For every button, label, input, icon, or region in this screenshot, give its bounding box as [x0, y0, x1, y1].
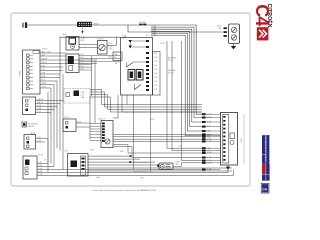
ignition switch CA00 [66, 37, 79, 51]
svg-text:BB10: BB10 [94, 24, 100, 26]
wire pin stub [206, 157, 221, 159]
wire main feed to node bundle [92, 25, 202, 114]
switch box CT01 [24, 133, 36, 149]
wire battery to connector [27, 24, 77, 26]
wire pin stub [206, 126, 221, 128]
label 1230VP97 [97, 39, 104, 41]
label 4VJ146 [146, 35, 150, 37]
wire U3 in 6 [90, 137, 101, 139]
wire U3 in 3 [90, 128, 101, 130]
wire bottom bus 3 [45, 170, 234, 176]
wire PSF1 pin 3 [40, 58, 97, 61]
wire module out 4 [90, 97, 202, 112]
wire riser 1 [50, 88, 52, 164]
wire bottom bus 2 [48, 165, 228, 173]
svg-text:1 NR: 1 NR [217, 28, 222, 30]
wire PSF1 pin 5 [40, 66, 63, 68]
pin BSI row 15 [202, 160, 212, 163]
wire riser x95b [94, 99, 96, 123]
wire PSF1 pin 8 [40, 75, 60, 78]
fuse F4 inline marks [139, 21, 146, 26]
wire U3 out 3 [113, 138, 202, 140]
control unit BV00 [68, 154, 89, 177]
wire riser x118 [113, 95, 118, 118]
wire bottom bus 1 [63, 169, 202, 171]
svg-text:DOCUMENTATION C4 04: DOCUMENTATION C4 04 [268, 136, 271, 164]
svg-text:10 MR: 10 MR [41, 83, 47, 85]
pin BSI row 5 [202, 130, 211, 133]
wire riser 5 [62, 74, 64, 170]
label PSF1 [20, 70, 22, 76]
wire riser 2 [53, 85, 55, 167]
svg-text:2 NR: 2 NR [108, 48, 113, 50]
svg-text:2 NR: 2 NR [175, 164, 180, 166]
svg-text:C001: C001 [41, 55, 45, 57]
wire pin stub [206, 121, 221, 123]
svg-text:C4: C4 [183, 110, 185, 112]
wire CT02 pin 2 [37, 165, 54, 167]
pin BSI row 10 [202, 141, 212, 144]
ground motor U2 [231, 44, 236, 50]
border frame [11, 13, 250, 186]
wire C10 pin 2 [36, 101, 61, 104]
wire PSF1 pin 2 [40, 55, 66, 57]
wire BV00 out 4 [88, 164, 159, 166]
wire riser x181 [182, 41, 203, 161]
label C001842 [42, 48, 48, 50]
wire ignition to motor M3 [79, 45, 98, 48]
svg-text:12A VE: 12A VE [37, 101, 44, 104]
pin BSI row 14 [202, 157, 212, 160]
svg-text:1 NR: 1 NR [80, 40, 85, 42]
svg-text:B8: B8 [115, 63, 117, 65]
wire pin stub [206, 150, 221, 152]
svg-text:C4 B8: C4 B8 [30, 133, 35, 135]
label group B BV [168, 69, 176, 75]
label group A BV [168, 57, 177, 63]
label 4BA96 [96, 176, 101, 179]
svg-text:C4: C4 [44, 160, 46, 162]
fuse box PSF1 [23, 50, 41, 94]
wire pin stub [206, 141, 221, 143]
wire CV00 bottom drop 2 [133, 95, 135, 170]
wire C10 pin 1 [36, 98, 64, 101]
label CV00 [122, 36, 127, 38]
pin BSI row 4 [202, 126, 211, 129]
pin BSI row 2 [202, 116, 212, 119]
wire C10 pin 5 [36, 111, 52, 113]
svg-text:PSF1: PSF1 [20, 70, 22, 76]
wire PSF1 pin 1 [40, 51, 66, 54]
pin BSI row 8 [202, 136, 211, 139]
connector box C10 [23, 97, 36, 115]
wire U3 in 4 [90, 131, 101, 133]
svg-text:5 GR: 5 GR [41, 73, 46, 75]
wire pin stub [206, 147, 221, 149]
svg-text:2 NR: 2 NR [41, 66, 46, 68]
wire module enclosure top [60, 36, 126, 77]
module V1300 [63, 117, 90, 131]
wire riser x167 [167, 41, 202, 148]
battery BB00 [23, 22, 26, 28]
wire pin stub [206, 152, 221, 154]
wire pin stub [206, 138, 221, 140]
svg-text:1 NR: 1 NR [37, 141, 42, 143]
pin BSI row 17 [202, 168, 212, 171]
svg-text:1280 C4: 1280 C4 [98, 119, 105, 121]
combination switch CV00 [121, 38, 153, 96]
wire pin stub [206, 133, 221, 135]
wire riser x90 [89, 96, 91, 140]
relay K1 [66, 54, 79, 73]
wire module out 3 [90, 95, 202, 110]
wire module out 1 [90, 90, 202, 105]
wire PSF1 pin 7 [40, 73, 60, 75]
label H1 [175, 162, 180, 166]
svg-text:9 MR: 9 MR [38, 174, 43, 176]
svg-text:12A VE: 12A VE [41, 61, 48, 64]
pins motor U2 [224, 27, 227, 37]
svg-text:9 VJ: 9 VJ [37, 111, 41, 113]
wire U3 in 5 [90, 134, 101, 136]
label CA00 [80, 38, 85, 43]
label B8115 [115, 63, 117, 65]
label 2VE108 [108, 57, 113, 59]
wire riser 4 [59, 78, 61, 151]
wire CT01 out 2 [36, 141, 46, 143]
connector C2 [113, 52, 122, 61]
label B00 [217, 26, 222, 31]
caption text [92, 189, 157, 192]
label a bd gestion [133, 161, 149, 173]
wire CT02 pin 5 [37, 174, 45, 176]
arrow marker below BB10 [81, 28, 83, 33]
wire H1 riser [182, 163, 203, 167]
wire CT02 pin 4 [37, 170, 48, 173]
motor U2 (washer pump) [229, 24, 240, 44]
label 3VE140 [140, 178, 145, 180]
pins BSI [223, 116, 225, 161]
ground BSI [226, 165, 230, 170]
wire PSF1 pin 10 [40, 83, 54, 85]
wire riser 6 [47, 92, 49, 173]
wire BV00 out 5 [88, 167, 232, 169]
pins U3 [102, 123, 105, 142]
wires relay K1 out [79, 54, 121, 70]
wire pin stub [206, 160, 221, 162]
label BV0290 [90, 150, 94, 152]
svg-text:C4 B8: C4 B8 [151, 34, 156, 36]
svg-text:CA00: CA00 [41, 51, 46, 54]
svg-text:4 VJ: 4 VJ [146, 35, 150, 37]
svg-text:2 BG: 2 BG [37, 137, 42, 139]
svg-text:14 GR: 14 GR [168, 73, 174, 75]
wire PSF1 pin 11 [40, 87, 51, 89]
logo chevron badge [257, 27, 269, 40]
pin BSI row 12 [202, 150, 211, 153]
wire U3 out 4 [113, 141, 202, 143]
label C4B8160 [160, 43, 165, 45]
label C444 [44, 160, 46, 162]
svg-text:C4: C4 [252, 4, 272, 26]
svg-text:1230 VP: 1230 VP [97, 39, 104, 41]
wire pin stub [206, 117, 221, 119]
wire U3 in 1 [90, 122, 101, 124]
pin BSI row 7 [202, 135, 211, 138]
wire branch to motor U2 [128, 25, 223, 32]
wire pin stub [206, 135, 221, 137]
wire module out 2 [90, 92, 202, 107]
wire CV00 bottom drop 4 [122, 95, 202, 112]
wiper motor U3 [98, 119, 113, 148]
inline connector 8V [22, 122, 39, 128]
wire pin stub [206, 113, 221, 115]
svg-text:C4 B8: C4 B8 [38, 155, 43, 157]
svg-text:4 NR: 4 NR [38, 165, 43, 167]
wire PSF1 pin 4 [40, 61, 97, 64]
pins CV00 [146, 40, 149, 91]
wire U3 in 2 [90, 125, 101, 127]
label BB10 [94, 24, 100, 26]
wire H1 out [173, 165, 182, 167]
wire bus line 2 [151, 26, 202, 118]
pins PSF1 [27, 54, 34, 90]
label C4183 [183, 110, 185, 112]
edition badge square [261, 183, 269, 193]
wire pin stub [206, 130, 221, 132]
pin BSI row 3 [202, 121, 212, 124]
edition badge bar [262, 135, 271, 181]
svg-text:11 BG: 11 BG [41, 87, 47, 89]
pin BSI row 6 [202, 133, 212, 136]
wire CT01 out 1 [36, 137, 49, 164]
pin BSI row 11 [202, 147, 211, 150]
pin BSI row 1 [202, 113, 212, 116]
wire U3 lower out 1 [113, 145, 202, 154]
BSI unit 1300 [221, 113, 238, 166]
wire U3 out 1 [113, 133, 202, 135]
label 1NR64 [64, 151, 69, 153]
label 12VE150 [150, 119, 155, 121]
pin BSI row 16 [202, 161, 212, 164]
svg-text:6 GR: 6 GR [38, 168, 43, 170]
pin H1 [157, 164, 159, 167]
wire M3 to riser [107, 38, 117, 46]
wire riser x172 [172, 41, 202, 151]
shielded module (dashed) [64, 89, 90, 104]
svg-text:16A NR: 16A NR [37, 98, 44, 101]
wire bus line 6 [151, 34, 202, 135]
wire U3 lower out 2 [113, 147, 202, 158]
label 2NR47 [47, 51, 52, 53]
svg-text:BV02: BV02 [90, 150, 94, 152]
wire CV00 bottom drop 3 [150, 95, 152, 173]
wire C10 pin 4 [36, 107, 55, 110]
pin BSI row 13 [202, 152, 212, 155]
connector box CT02 [23, 155, 43, 180]
connector column CV00a [153, 52, 161, 96]
wire BV00 out 6 [88, 170, 232, 172]
wire relay risers [92, 56, 96, 100]
wire bus line 3 [151, 28, 202, 122]
svg-text:4 GR: 4 GR [37, 105, 42, 107]
logo CITROEN wordmark [266, 4, 273, 28]
wire U3 out 2 [113, 136, 202, 138]
wire bus line 5 [151, 32, 202, 131]
svg-text:9 VJ: 9 VJ [41, 80, 45, 82]
wire pin stub [206, 136, 221, 138]
wire riser 3 [56, 81, 58, 148]
logo C4 red [252, 4, 272, 26]
wire PSF1 pin 6 [40, 69, 63, 71]
contact blocks CV00 [128, 70, 143, 81]
svg-text:F4 30A: F4 30A [139, 21, 146, 24]
wire CT02 pin 3 [37, 168, 63, 170]
label CA0062 [62, 33, 66, 36]
label 2GR178 [178, 146, 183, 148]
sensor H1 [159, 163, 173, 170]
svg-text:C4: C4 [262, 188, 266, 192]
svg-text:C4 B8: C4 B8 [160, 43, 165, 45]
switch contacts CV00 [127, 62, 146, 68]
label 1300 bracket [241, 114, 244, 164]
motor M3 (front pump) [98, 41, 108, 55]
label 6NR120 [120, 151, 125, 153]
svg-text:SCHEMA ELECTRIQUE: SCHEMA ELECTRIQUE [264, 136, 267, 162]
wire U3 in 7 [90, 139, 101, 141]
wire PSF1 pin 9 [40, 80, 57, 82]
svg-text:CV00: CV00 [122, 36, 127, 38]
svg-text:C001 8: C001 8 [42, 48, 48, 50]
svg-text:12A VE: 12A VE [28, 125, 35, 128]
wire BV00 out 3 [88, 161, 155, 164]
connector strip BB10 [77, 22, 92, 27]
wire CV00 bottom drop 1 [126, 95, 128, 105]
svg-text:a bd gestion moteur: a bd gestion moteur [133, 161, 149, 164]
svg-text:V1300: V1300 [64, 117, 69, 119]
wire CT02 pin 1 [37, 162, 48, 164]
wire bus line 4 [151, 30, 202, 127]
svg-text:16A NR: 16A NR [41, 58, 48, 61]
wire pin stub [206, 162, 221, 164]
label M3 [108, 43, 113, 50]
diodes CV00 [129, 40, 146, 49]
wire pin stub [206, 169, 221, 171]
switch contact 2 CV00 [135, 84, 142, 90]
pin BSI row 9 [202, 138, 212, 141]
wire BV00 out 1 [88, 155, 132, 158]
svg-text:La suite des branchements (mot: La suite des branchements (moteur, alter… [92, 189, 157, 192]
wire BV00 out 2 [88, 158, 140, 160]
wire C10 pin 3 [36, 105, 58, 107]
svg-text:CA00: CA00 [62, 33, 66, 36]
